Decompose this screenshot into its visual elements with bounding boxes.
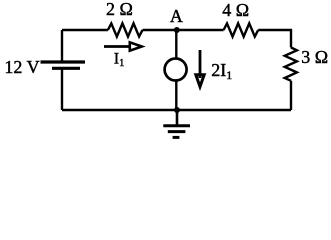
resistor R1 (2 ohm) zigzag <box>108 23 143 36</box>
wire: top-left horizontal from source to R1 <box>62 29 108 31</box>
svg-text:12 V: 12 V <box>4 57 39 77</box>
wire: left side bottom (source V1 bottom lead) <box>61 69 63 110</box>
current source U1 (dependent source 2I1) circle <box>165 59 187 81</box>
wire: left side top (source V1 top lead) <box>61 30 63 61</box>
svg-text:I1: I1 <box>114 50 124 68</box>
node A junction dot <box>174 27 180 33</box>
ground symbol bar 2 <box>168 130 186 133</box>
wire: right side below R3 to bottom corner <box>290 81 292 110</box>
svg-text:2 Ω: 2 Ω <box>106 0 133 19</box>
ground symbol stem <box>176 110 179 125</box>
current source arrow 2I1 (open head) <box>196 75 204 87</box>
wire: top middle from R1 to R2 through node A <box>143 29 224 31</box>
resistor R2 (4 ohm) zigzag <box>224 23 259 36</box>
wire: from current source bottom to ground node <box>175 81 177 110</box>
wire: bottom rail <box>62 109 291 111</box>
battery V1 (12 V) long plate <box>41 60 86 63</box>
wire: from node A down to current source I2 <box>175 30 177 58</box>
svg-text:A: A <box>170 6 183 26</box>
ground symbol bar 3 <box>173 136 180 139</box>
current arrow for I1 (open head) <box>130 42 142 50</box>
current arrow for I1 (shaft) <box>104 45 131 48</box>
svg-text:3 Ω: 3 Ω <box>301 47 328 67</box>
svg-text:4 Ω: 4 Ω <box>222 0 249 20</box>
current source arrow 2I1 (shaft) <box>199 50 202 78</box>
svg-text:2I1: 2I1 <box>211 60 232 82</box>
junction dot at ground node <box>174 107 180 113</box>
wire: top-right to corner and down to R3 <box>258 30 291 48</box>
resistor R3 (3 ohm) vertical zigzag <box>285 48 297 81</box>
ground symbol bar 1 <box>163 124 190 127</box>
battery V1 (12 V) short plate <box>52 67 80 70</box>
